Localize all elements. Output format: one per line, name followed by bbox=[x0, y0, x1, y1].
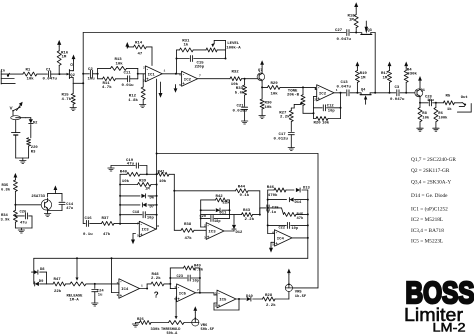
wire R44 R43 rail bbox=[259, 191, 261, 216]
capacitor C27 bbox=[335, 29, 352, 42]
svg-text:47: 47 bbox=[138, 53, 143, 57]
diode D2 bbox=[26, 118, 39, 138]
svg-text:IC4: IC4 bbox=[121, 288, 129, 292]
transistor Q2 bbox=[67, 64, 76, 79]
ground under R34 bbox=[18, 230, 24, 233]
wire R41 drop to R38 bbox=[173, 174, 175, 230]
svg-text:R5: R5 bbox=[446, 95, 451, 99]
svg-text:470k: 470k bbox=[268, 193, 278, 198]
wire bus drop to IC4b bbox=[112, 258, 119, 292]
wire IC4a output bbox=[292, 237, 309, 239]
switch contact bbox=[12, 107, 20, 112]
resistor R34 bbox=[1, 210, 18, 228]
svg-text:2: 2 bbox=[143, 67, 145, 70]
wire IC1 output bbox=[162, 73, 180, 75]
wire Q2 source bbox=[73, 78, 84, 84]
svg-text:V: V bbox=[10, 106, 14, 111]
ground under R15 bbox=[70, 108, 76, 111]
svg-text:-: - bbox=[177, 286, 180, 290]
svg-text:Q2 = 2SK117-GR: Q2 = 2SK117-GR bbox=[411, 168, 450, 174]
svg-text:IC5: IC5 bbox=[219, 299, 227, 303]
capacitor C28 bbox=[420, 96, 437, 106]
wire control bus bbox=[34, 257, 308, 259]
transistor Q7 bbox=[257, 69, 265, 82]
svg-text:3: 3 bbox=[204, 237, 206, 240]
svg-text:10k: 10k bbox=[271, 92, 279, 97]
wire feedback riser IC1 bbox=[176, 50, 178, 74]
svg-text:C21: C21 bbox=[237, 105, 245, 109]
capacitor C20 bbox=[200, 215, 230, 224]
svg-text:IC2: IC2 bbox=[319, 92, 327, 96]
wire R11 to C11 bbox=[116, 78, 128, 80]
diode D8 bbox=[32, 268, 47, 274]
diode D12 bbox=[232, 215, 243, 235]
svg-text:47u: 47u bbox=[127, 163, 135, 167]
svg-text:4.7k: 4.7k bbox=[102, 85, 112, 90]
svg-text:C17: C17 bbox=[279, 133, 287, 137]
svg-text:2.2k: 2.2k bbox=[245, 217, 255, 222]
resistor R33 bbox=[235, 79, 247, 107]
ground under C21 bbox=[241, 121, 247, 124]
svg-text:R34: R34 bbox=[1, 214, 9, 218]
svg-text:Q3,4 = 2SK30A-Y: Q3,4 = 2SK30A-Y bbox=[411, 180, 451, 186]
svg-text:-: - bbox=[218, 293, 221, 297]
wire IC2b out to C13 bbox=[334, 92, 346, 94]
svg-text:IC3: IC3 bbox=[208, 231, 216, 235]
resistor R14 bbox=[127, 42, 152, 66]
svg-text:0.047u: 0.047u bbox=[390, 98, 405, 102]
resistor R44 bbox=[173, 185, 259, 198]
power arrow V+ for Q1 bbox=[418, 76, 422, 87]
resistor R41 bbox=[158, 171, 175, 184]
transistor Q3 bbox=[361, 21, 372, 34]
power arrow V+ for C14 bbox=[54, 185, 58, 193]
svg-text:0.012u: 0.012u bbox=[274, 138, 289, 142]
capacitor C16 bbox=[83, 217, 93, 237]
power arrow V+ for R14 bbox=[125, 42, 129, 48]
resistor R43 bbox=[201, 209, 260, 222]
svg-text:IC1: IC1 bbox=[148, 73, 156, 77]
svg-text:R20: R20 bbox=[314, 122, 322, 126]
resistor R38 bbox=[174, 223, 206, 241]
svg-text:10p: 10p bbox=[292, 227, 298, 231]
capacitor C1 bbox=[43, 69, 58, 82]
power arrow V+ for R18 bbox=[354, 2, 358, 8]
power arrow V+ for VR6 bbox=[193, 306, 197, 319]
diode D7 bbox=[119, 203, 158, 210]
wire D8 D9 right rail bbox=[46, 272, 48, 284]
svg-text:6: 6 bbox=[179, 74, 181, 77]
svg-text:2: 2 bbox=[215, 305, 217, 308]
symbol question mark bbox=[154, 291, 159, 300]
svg-text:1M: 1M bbox=[383, 76, 388, 80]
svg-text:4.7k: 4.7k bbox=[62, 97, 72, 102]
resistor R15 bbox=[62, 83, 76, 107]
svg-text:6: 6 bbox=[157, 225, 159, 228]
ground for R26 bbox=[132, 323, 138, 328]
svg-text:IC3,4 = BA718: IC3,4 = BA718 bbox=[411, 228, 444, 234]
potentiometer TONE 20k-B bbox=[287, 87, 314, 113]
svg-text:6.8k: 6.8k bbox=[194, 268, 204, 273]
wire IC4a left rail bbox=[267, 190, 269, 225]
wire branch split down bbox=[98, 74, 103, 79]
wire Q2 drain bbox=[72, 61, 75, 71]
battery BT1 bbox=[12, 120, 21, 158]
svg-text:47k: 47k bbox=[103, 232, 111, 237]
svg-text:R35: R35 bbox=[2, 184, 10, 188]
svg-text:R1: R1 bbox=[26, 69, 31, 73]
svg-text:C16: C16 bbox=[85, 217, 93, 221]
op-amp IC2 second half bbox=[314, 85, 338, 102]
svg-text:C2: C2 bbox=[88, 68, 93, 72]
resistor R28 bbox=[263, 294, 289, 308]
svg-text:1k: 1k bbox=[184, 43, 189, 48]
svg-text:1k-5F: 1k-5F bbox=[295, 294, 307, 299]
power arrow V+ for Q7 bbox=[260, 60, 264, 72]
svg-text:18p: 18p bbox=[214, 220, 220, 224]
svg-text:3: 3 bbox=[215, 293, 217, 296]
wire IC4b output bbox=[140, 288, 149, 290]
capacitor C2 bbox=[88, 68, 96, 82]
svg-text:R37: R37 bbox=[102, 217, 110, 221]
svg-text:3: 3 bbox=[143, 80, 145, 83]
wire IC4a fb rail bbox=[307, 190, 309, 258]
transistor Q8 2SA733 bbox=[31, 195, 51, 211]
diode D14 bbox=[268, 198, 308, 206]
resistor R47 bbox=[47, 278, 71, 294]
power arrow V+ for R35 bbox=[14, 173, 18, 179]
ground under C24 bbox=[92, 303, 98, 306]
svg-text:0.1u: 0.1u bbox=[83, 233, 93, 237]
svg-text:6: 6 bbox=[272, 232, 274, 235]
diode D13 bbox=[296, 187, 311, 193]
capacitor C15 bbox=[177, 56, 227, 70]
svg-text:10p: 10p bbox=[192, 279, 198, 283]
wire C27 to Q3 bbox=[350, 32, 361, 34]
ground for C19 bbox=[108, 166, 114, 172]
wire to VR5 bbox=[293, 287, 318, 289]
svg-text:C23: C23 bbox=[177, 275, 183, 279]
svg-text:100k-A: 100k-A bbox=[226, 45, 241, 50]
wire to IC2b input bbox=[303, 87, 317, 89]
svg-text:D2: D2 bbox=[33, 122, 38, 126]
svg-text:220p: 220p bbox=[195, 66, 205, 70]
wire R34 C26 to ground bbox=[15, 228, 32, 230]
wire Q4 to node bbox=[370, 92, 376, 94]
svg-text:D6: D6 bbox=[150, 197, 155, 201]
trimmer VR5 1k-5F bbox=[285, 283, 307, 299]
power arrow V+ for R17 bbox=[388, 62, 392, 68]
svg-text:D10: D10 bbox=[246, 295, 254, 299]
op-amp IC4 first half bbox=[272, 230, 292, 247]
wire IC2b feedback rail bbox=[340, 92, 342, 119]
svg-text:R29: R29 bbox=[271, 82, 279, 86]
potentiometer LEVEL 100k-A bbox=[206, 40, 241, 58]
resistor R16 bbox=[57, 46, 69, 74]
svg-text:D14 = Ge. Diode: D14 = Ge. Diode bbox=[411, 193, 448, 199]
power arrow V+ for Q2 drain bbox=[72, 55, 76, 61]
svg-text:47k: 47k bbox=[185, 236, 193, 241]
wire IC3b inv rail bbox=[201, 200, 207, 227]
svg-text:1: 1 bbox=[141, 285, 143, 288]
svg-text:5: 5 bbox=[272, 244, 274, 247]
svg-text:5: 5 bbox=[179, 84, 181, 87]
op-amp IC4 second half bbox=[117, 279, 144, 299]
svg-text:C26: C26 bbox=[20, 210, 28, 214]
svg-text:D7: D7 bbox=[150, 206, 155, 210]
potentiometer THRESHOLD 50k-A bbox=[161, 297, 192, 336]
node TONE top bbox=[302, 86, 304, 88]
wire release to IC4b bbox=[95, 283, 119, 286]
resistor R1 bbox=[23, 69, 37, 82]
diode D11 bbox=[200, 208, 231, 215]
svg-text:R3: R3 bbox=[31, 150, 36, 154]
power arrow V+ for VR5 bbox=[287, 269, 291, 285]
wire signal bus vertical bbox=[82, 33, 84, 224]
wire sidechain left drop bbox=[156, 154, 158, 175]
wire IC3b out bbox=[224, 230, 234, 232]
svg-text:IC4: IC4 bbox=[277, 238, 285, 242]
svg-text:2.2k: 2.2k bbox=[280, 115, 290, 120]
svg-text:D8: D8 bbox=[40, 268, 45, 272]
svg-text:10k: 10k bbox=[159, 179, 167, 184]
wire Q1 emitter bbox=[419, 97, 421, 103]
resistor R29 bbox=[262, 82, 303, 96]
svg-text:C3: C3 bbox=[395, 86, 400, 90]
capacitor C22 bbox=[267, 222, 308, 230]
diode D10 bbox=[246, 295, 263, 301]
diode D6 bbox=[119, 194, 158, 201]
svg-text:1M-A: 1M-A bbox=[70, 298, 80, 302]
svg-text:10k: 10k bbox=[422, 115, 430, 120]
svg-text:LM-2: LM-2 bbox=[433, 320, 466, 334]
wire IC4a inv input bbox=[268, 225, 275, 233]
svg-text:IC2: IC2 bbox=[184, 78, 192, 82]
svg-text:7: 7 bbox=[137, 223, 139, 226]
wire branch split up bbox=[98, 68, 111, 73]
svg-text:50k-A: 50k-A bbox=[167, 331, 179, 336]
wire IC1 out to sidechain bbox=[156, 79, 158, 155]
svg-text:C1: C1 bbox=[46, 69, 51, 73]
capacitor C3 bbox=[390, 86, 407, 102]
logo BOSS Limiter LM-2 bbox=[404, 275, 474, 334]
resistor R46 bbox=[267, 186, 294, 198]
resistor R19 bbox=[355, 68, 367, 93]
wire C3 to Q1 base bbox=[406, 92, 415, 94]
wire det right rail bbox=[156, 174, 158, 229]
wire R31 to LEVEL pot bbox=[193, 49, 206, 51]
capacitor C17 bbox=[274, 133, 295, 148]
ground under R6 bbox=[433, 128, 439, 131]
svg-text:5.6k: 5.6k bbox=[235, 90, 245, 95]
wire det left rail bbox=[119, 174, 121, 225]
resistor R30 bbox=[260, 87, 272, 115]
op-amp IC1 bbox=[143, 66, 166, 83]
ground power supply bbox=[20, 161, 26, 164]
wire R13 to node bbox=[127, 68, 138, 73]
power arrow V- under IC1 bbox=[159, 82, 163, 98]
svg-text:D13: D13 bbox=[303, 187, 311, 191]
svg-text:Out: Out bbox=[461, 96, 468, 100]
svg-text:-: - bbox=[140, 224, 143, 228]
resistor R35 bbox=[1, 179, 17, 210]
resistor R6 bbox=[434, 103, 448, 128]
wire top bus bbox=[83, 32, 346, 34]
svg-text:10u: 10u bbox=[88, 78, 96, 82]
svg-text:10k: 10k bbox=[265, 105, 273, 110]
svg-text:R41: R41 bbox=[158, 171, 166, 175]
svg-text:3.9k: 3.9k bbox=[1, 217, 11, 222]
input jack J1 bbox=[1, 70, 16, 85]
power arrow V label bbox=[10, 102, 23, 111]
svg-text:10k: 10k bbox=[322, 121, 330, 126]
svg-text:C11: C11 bbox=[124, 72, 132, 76]
svg-text:C27: C27 bbox=[335, 29, 343, 33]
wire R1 to C1 bbox=[37, 73, 48, 75]
svg-text:47k: 47k bbox=[297, 216, 305, 221]
capacitor C19 bbox=[111, 159, 148, 176]
svg-text:7: 7 bbox=[199, 75, 201, 78]
svg-text:5: 5 bbox=[137, 235, 139, 238]
resistor R45 bbox=[284, 212, 308, 220]
svg-text:R44: R44 bbox=[238, 185, 246, 189]
op-amp IC5 first half bbox=[174, 284, 199, 303]
resistor R37 bbox=[90, 217, 140, 237]
svg-text:0.047u: 0.047u bbox=[337, 38, 352, 42]
svg-text:2: 2 bbox=[204, 225, 206, 228]
power arrow V+ for R4 bbox=[404, 62, 408, 68]
svg-text:R32: R32 bbox=[232, 71, 240, 75]
svg-text:Q1,7 = 2SC2240-GR: Q1,7 = 2SC2240-GR bbox=[411, 157, 456, 163]
ground under R8 bbox=[417, 128, 423, 131]
svg-text:-: - bbox=[182, 74, 185, 78]
DC jack bbox=[11, 111, 26, 120]
svg-text:C18: C18 bbox=[133, 211, 141, 215]
svg-text:R38: R38 bbox=[184, 223, 192, 227]
svg-text:47u: 47u bbox=[66, 207, 74, 211]
svg-text:1.8k: 1.8k bbox=[128, 98, 138, 103]
svg-text:-: - bbox=[120, 281, 123, 285]
svg-text:1: 1 bbox=[164, 70, 166, 73]
svg-text:R28: R28 bbox=[265, 294, 273, 298]
power arrow V- under IC3a bbox=[131, 234, 136, 245]
capacitor C25 bbox=[267, 205, 284, 215]
wire R28 to VR5 bbox=[288, 292, 290, 300]
svg-text:R14: R14 bbox=[135, 42, 143, 46]
wire IC5a out bbox=[196, 292, 214, 294]
svg-text:R26: R26 bbox=[137, 318, 145, 322]
wire IC5a fb riser bbox=[169, 268, 171, 284]
ground under C17 bbox=[288, 148, 294, 151]
svg-text:D12: D12 bbox=[236, 231, 244, 235]
svg-text:-: - bbox=[275, 232, 278, 236]
svg-text:0.047u: 0.047u bbox=[43, 77, 58, 81]
power arrow V+ for R16 bbox=[57, 40, 61, 47]
resistor R3 bbox=[27, 138, 39, 158]
wire node to IC1 input bbox=[138, 73, 146, 75]
trimmer VR6 50k-5F bbox=[192, 317, 215, 332]
svg-text:R42: R42 bbox=[216, 195, 224, 199]
resistor R49 bbox=[170, 264, 204, 272]
svg-text:1: 1 bbox=[174, 286, 176, 289]
svg-text:R12: R12 bbox=[129, 95, 137, 99]
wire bus to C2 bbox=[83, 73, 89, 75]
wire sidechain horizontal bbox=[157, 153, 318, 155]
svg-text:C22: C22 bbox=[279, 227, 285, 231]
wire sidechain right drop bbox=[317, 154, 319, 288]
capacitor C23 bbox=[169, 275, 200, 284]
capacitor C13 bbox=[337, 81, 352, 96]
svg-text:1k: 1k bbox=[447, 107, 452, 112]
capacitor C24 bbox=[92, 283, 105, 303]
resistor R27 bbox=[279, 108, 293, 132]
capacitor C14 bbox=[48, 193, 74, 211]
svg-text:In: In bbox=[1, 70, 5, 74]
resistor R13 bbox=[111, 58, 127, 70]
wire IC3b fb rail bbox=[229, 200, 231, 219]
svg-text:0.01u: 0.01u bbox=[122, 84, 135, 88]
resistor R11 bbox=[102, 77, 116, 90]
svg-text:10k: 10k bbox=[122, 179, 130, 184]
capacitor C21 bbox=[233, 105, 248, 122]
resistor R32 bbox=[230, 71, 242, 87]
svg-text:1M: 1M bbox=[145, 187, 150, 191]
svg-text:2.2k: 2.2k bbox=[266, 303, 276, 308]
svg-text:Q1: Q1 bbox=[421, 89, 426, 93]
svg-text:1u: 1u bbox=[98, 293, 103, 297]
node bus-top junction bbox=[82, 73, 84, 85]
resistor R31 bbox=[177, 39, 194, 52]
svg-text:6.8k: 6.8k bbox=[1, 187, 11, 192]
transistor Q1 bbox=[415, 87, 426, 98]
svg-text:3: 3 bbox=[117, 294, 119, 297]
svg-text:-: - bbox=[146, 68, 149, 72]
capacitor C12 bbox=[314, 104, 341, 113]
svg-text:IC1 = (uP)C1252: IC1 = (uP)C1252 bbox=[411, 206, 448, 213]
wire IC2b inv rail bbox=[313, 96, 317, 118]
power arrow V- under IC4a bbox=[269, 242, 275, 252]
svg-text:10p: 10p bbox=[147, 216, 155, 220]
op-amp IC5 second half bbox=[215, 290, 236, 309]
svg-text:20k-B: 20k-B bbox=[287, 93, 300, 98]
svg-text:C20: C20 bbox=[200, 215, 206, 219]
wire C11 to node bbox=[130, 73, 139, 79]
wire TONE wiper bbox=[291, 104, 301, 108]
ground under R30 bbox=[259, 116, 265, 119]
power arrow V+ for R19 bbox=[356, 62, 360, 68]
wire battery R3 join bbox=[16, 158, 29, 161]
resistor R42 bbox=[201, 195, 231, 206]
svg-text:2SA733: 2SA733 bbox=[31, 195, 45, 199]
svg-text:C25: C25 bbox=[272, 207, 280, 211]
op-amp IC3 second half bbox=[204, 223, 224, 241]
transistor Q4 bbox=[360, 89, 371, 105]
svg-text:100k: 100k bbox=[438, 115, 448, 120]
ground under Q8 bbox=[44, 214, 50, 217]
svg-text:2.2k: 2.2k bbox=[151, 276, 161, 281]
output jack J2 bbox=[457, 96, 471, 112]
svg-text:R40: R40 bbox=[120, 171, 128, 175]
wire Q3 to drop bbox=[371, 32, 375, 34]
wire Q7 emitter bbox=[261, 81, 263, 88]
svg-text:IC5 = M5223L: IC5 = M5223L bbox=[411, 238, 443, 244]
resistor R12 bbox=[128, 74, 145, 105]
svg-text:R46: R46 bbox=[267, 186, 275, 190]
wire to IC4 cluster bbox=[260, 208, 266, 215]
resistor R17 bbox=[381, 68, 392, 93]
svg-text:R43: R43 bbox=[243, 209, 251, 213]
wire IC5a fb rail bbox=[199, 268, 201, 294]
